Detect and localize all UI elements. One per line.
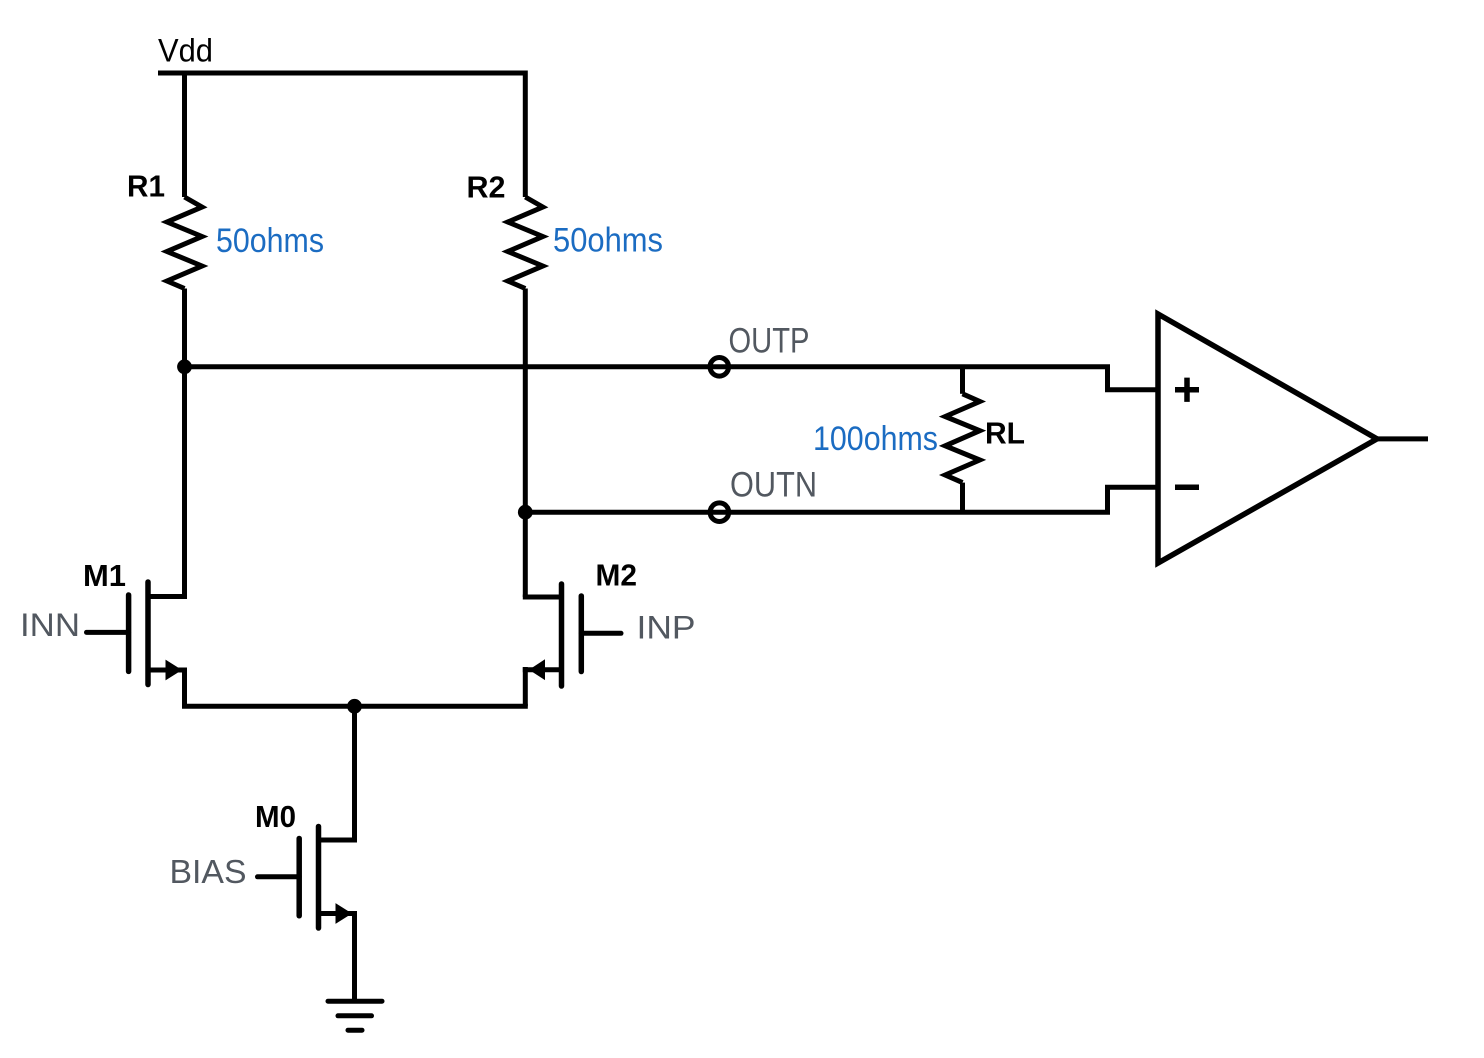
svg-text:M0: M0	[255, 799, 296, 834]
svg-text:50ohms: 50ohms	[553, 222, 663, 260]
wire: R1 bottom to node OUTP / M1 drain	[182, 289, 187, 597]
wire: INN stub to M1 gate	[87, 630, 129, 635]
svg-text:Vdd: Vdd	[158, 33, 213, 69]
wire: RL top lead	[960, 367, 965, 394]
wire: net OUTP from M1 drain to op-amp + input	[185, 367, 1158, 390]
transistor M1	[129, 582, 187, 685]
wire: M1 source down to tail	[182, 668, 187, 707]
junction node OUTN	[518, 505, 533, 520]
wire: R2 bottom to node OUTN / M2 drain	[523, 289, 528, 513]
resistor RL	[945, 394, 980, 483]
wire: common source tail	[182, 704, 528, 709]
wire: BIAS stub to M0 gate	[258, 874, 300, 879]
wire: M2 source down to tail	[523, 667, 528, 706]
svg-text:INP: INP	[637, 610, 696, 646]
op-amp - input pin marker	[1175, 484, 1199, 490]
op-amp U1	[1158, 314, 1377, 563]
svg-text:M2: M2	[596, 558, 638, 593]
junction node OUTP	[177, 359, 192, 374]
terminal OUTP	[710, 358, 729, 377]
svg-text:OUTP: OUTP	[729, 322, 810, 361]
transistor M0	[299, 827, 357, 929]
wire: Vdd rail to R2 top	[523, 71, 528, 198]
svg-text:M1: M1	[83, 558, 126, 593]
transistor M2	[523, 584, 582, 686]
svg-text:R1: R1	[127, 169, 165, 204]
wire: INP stub to M2 gate	[581, 631, 621, 636]
wire: net OUTN from M2 drain to op-amp - input	[525, 487, 1157, 512]
junction tail node	[347, 699, 362, 714]
svg-text:50ohms: 50ohms	[216, 222, 324, 260]
wire: Vdd power rail	[158, 71, 525, 76]
resistor R1	[167, 197, 202, 289]
svg-text:OUTN: OUTN	[730, 466, 817, 505]
resistor R2	[508, 197, 543, 289]
wire: Vdd rail to R1 top	[182, 73, 187, 197]
svg-text:INN: INN	[20, 607, 80, 643]
wire: op-amp output	[1377, 436, 1428, 441]
svg-text:100ohms: 100ohms	[813, 420, 938, 458]
svg-text:BIAS: BIAS	[170, 853, 247, 890]
wire: tail to M0 drain	[352, 706, 357, 840]
wire: M2 drain from node OUTN	[523, 512, 528, 597]
svg-text:R2: R2	[467, 170, 506, 205]
svg-text:RL: RL	[985, 416, 1025, 451]
wire: M0 source to ground	[352, 911, 357, 1001]
terminal OUTN	[710, 503, 729, 522]
op-amp + input pin marker	[1175, 378, 1199, 402]
ground	[328, 1001, 382, 1030]
wire: RL bottom lead	[960, 483, 965, 513]
